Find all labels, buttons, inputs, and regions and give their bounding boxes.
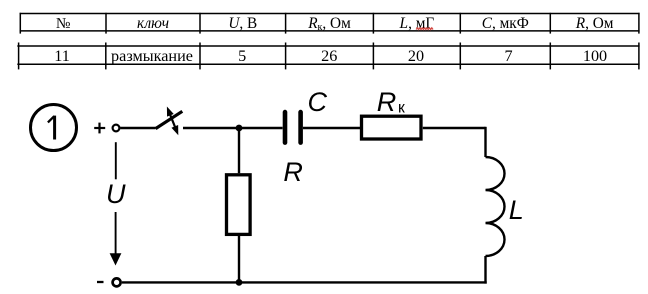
svg-text:Rк, Ом: Rк, Ом [307, 15, 351, 33]
svg-text:размыкание: размыкание [111, 47, 193, 65]
svg-text:5: 5 [238, 47, 246, 65]
svg-text:к: к [398, 100, 405, 117]
svg-text:C: C [308, 87, 328, 117]
svg-text:R, Ом: R, Ом [575, 15, 614, 32]
svg-text:20: 20 [408, 47, 424, 65]
svg-text:ключ: ключ [137, 15, 169, 32]
svg-text:26: 26 [321, 47, 337, 65]
svg-text:7: 7 [504, 47, 512, 65]
svg-text:U, В: U, В [228, 15, 257, 32]
svg-text:R: R [377, 87, 397, 117]
svg-text:100: 100 [583, 47, 607, 65]
svg-text:L: L [509, 195, 524, 225]
svg-text:№: № [56, 15, 71, 32]
svg-text:U: U [106, 179, 126, 209]
svg-text:R: R [283, 157, 303, 187]
svg-text:C, мкФ: C, мкФ [482, 15, 529, 32]
svg-text:11: 11 [54, 47, 70, 65]
